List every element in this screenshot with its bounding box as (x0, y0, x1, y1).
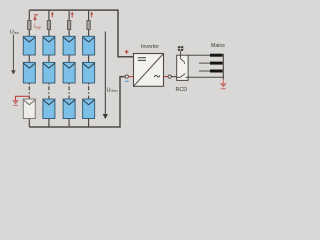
earth arrow at mains (220, 79, 227, 89)
PV module M7 string3 row1 (63, 36, 75, 55)
PV module M8 string3 row2 (63, 62, 75, 83)
mains line L3 (199, 70, 223, 72)
wire top DC+ bus from array to inverter (29, 10, 133, 57)
mains neutral wire (188, 76, 223, 78)
label minus terminal (125, 81, 129, 82)
wire string column 3 (68, 10, 70, 127)
current arrow string4 up (90, 12, 93, 18)
RCD test winding grid symbol (178, 46, 183, 55)
wire node to RCD (171, 76, 176, 78)
PV module M4 string2 row1 (43, 36, 55, 55)
svg-text:Inverter: Inverter (141, 44, 159, 50)
RCD box (177, 55, 188, 80)
mains line L1 (188, 54, 223, 56)
PV module M2 string1 row2 (23, 62, 35, 83)
PV module M9 string3 row3 (63, 99, 75, 119)
node circle AC out (168, 75, 171, 78)
PV module M10 string4 row1 (83, 36, 95, 55)
earth fault arrow red at faulty module (12, 96, 29, 105)
wire string column 2 (48, 10, 50, 127)
fuse resistor string 2 (47, 21, 50, 30)
wire inverter AC out (164, 76, 169, 78)
wire string column 1 (28, 10, 30, 127)
svg-text:RCD: RCD (176, 87, 188, 93)
PV module M11 string4 row2 (83, 62, 95, 83)
wire string column 4 (88, 10, 90, 127)
fuse resistor string 1 (28, 21, 31, 30)
fuse resistor string 4 (87, 21, 90, 30)
svg-text:Ikap: Ikap (34, 24, 41, 30)
PV module M5 string2 row2 (43, 62, 55, 83)
mains earth bus vertical (222, 54, 224, 80)
fuse resistor string 3 (67, 21, 70, 30)
PV module M6 string2 row3 (43, 99, 55, 119)
label plus terminal (125, 50, 129, 54)
wire bottom DC- bus from array to inverter (29, 77, 125, 127)
inverter box (134, 54, 164, 87)
PV module M3 string1 row3 faulty white (23, 99, 35, 119)
minus terminal circle (125, 75, 128, 78)
voltage arrow U_Gen (103, 32, 108, 120)
current arrow string3 up (71, 12, 74, 18)
PV module M1 string1 row1 (23, 36, 35, 55)
current arrow Ikap string1 down (33, 15, 38, 22)
current arrow string2 up (51, 12, 54, 18)
voltage arrow U_Iso left (11, 35, 16, 75)
PV module M12 string4 row3 (83, 99, 95, 119)
mains line L2 (199, 62, 223, 64)
wire minus circle to inverter (128, 76, 133, 78)
svg-text:Mains: Mains (211, 43, 225, 49)
